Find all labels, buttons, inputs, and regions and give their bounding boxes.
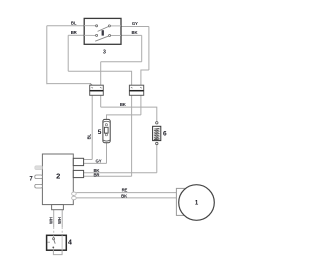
wire resistor6 bottom vertical — [156, 145, 158, 173]
wire BL arrowhead at connector — [90, 83, 92, 85]
svg-text:WH: WH — [57, 217, 62, 224]
switch 3 pole1 lever — [98, 27, 109, 32]
box2 terminal oval RE — [72, 192, 77, 195]
svg-text:RE: RE — [122, 188, 128, 193]
switch 3 pole1 right stub — [111, 25, 121, 27]
wire BR vertical — [67, 35, 69, 71]
resistor 6 body — [153, 126, 161, 140]
switch 3 pole1 left contact — [96, 25, 98, 27]
svg-text:BK: BK — [121, 194, 128, 199]
svg-text:5: 5 — [98, 129, 102, 136]
switch 3 pole1 left stub — [84, 25, 95, 27]
box4 lever — [54, 240, 55, 244]
wire BL horizontal into box2 tab1 upper — [84, 159, 93, 161]
motor bracket — [176, 188, 193, 215]
switch 3 gang link bar — [102, 30, 104, 35]
wire BL horizontal from switch left — [47, 25, 84, 27]
box4 inner right wire — [61, 235, 63, 250]
svg-text:BR: BR — [93, 172, 100, 177]
svg-text:BL: BL — [71, 20, 77, 25]
box4 return U wire — [53, 250, 62, 254]
wire BR horizontal from switch left — [68, 34, 84, 36]
svg-text:GY: GY — [132, 21, 138, 26]
box4 contact — [53, 238, 55, 240]
box2 terminal oval BK — [72, 196, 77, 199]
switch box 4 — [47, 235, 67, 250]
box4 lower stub — [52, 248, 54, 250]
svg-text:4: 4 — [68, 240, 72, 247]
wire BK horizontal from switch right — [121, 34, 142, 36]
wire BK vertical into left connector — [100, 62, 102, 85]
box4 actuator dash — [48, 241, 51, 243]
wire BK vertical down — [141, 35, 143, 61]
switch 3 pole1 right contact — [108, 25, 110, 27]
wire BK below left connector — [100, 95, 102, 107]
wire BL horizontal into left connector — [47, 83, 91, 85]
resistor 6 bottom terminal — [156, 142, 158, 144]
wire WH right from box2 bottom tab — [61, 210, 63, 227]
wire GY jog into right connector — [141, 70, 149, 85]
switch 3 pole2 left stub — [84, 34, 95, 36]
wire fuse5 bottom vertical — [106, 143, 108, 164]
svg-text:3: 3 — [103, 50, 106, 56]
svg-text:6: 6 — [163, 131, 167, 138]
control unit box 2 — [42, 154, 73, 205]
wire GY horizontal into box2 tab1 lower — [84, 162, 107, 164]
box4 inner left wire — [53, 235, 55, 237]
box2 tab2 — [73, 170, 83, 177]
wire WH left from box2 bottom tab — [53, 210, 55, 227]
wire BR horizontal to right connector — [68, 71, 131, 85]
box2 tab1 — [73, 158, 83, 165]
switch 3 pole2 right stub — [111, 35, 121, 37]
fuse 5 body — [103, 119, 110, 142]
box2 left pin3 — [35, 184, 43, 188]
svg-text:BL: BL — [86, 133, 91, 139]
box2 left pin2 — [35, 175, 43, 179]
box4 lower contact — [52, 247, 54, 249]
wire BK horizontal left — [101, 61, 142, 63]
wire BL below left connector down to box2 tab1 — [91, 95, 93, 159]
wire BK horizontal into box2 tab2 upper — [84, 172, 157, 174]
svg-text:BK: BK — [120, 102, 127, 107]
box2 left pin1 — [35, 166, 43, 170]
switch 3 pole2 right contact — [109, 35, 111, 37]
wire GY horizontal from switch right — [121, 26, 149, 28]
svg-text:2: 2 — [56, 172, 60, 181]
switch 3 pole2 lever — [95, 36, 108, 41]
wire GY vertical down — [148, 27, 150, 71]
wire RE to motor — [76, 192, 176, 194]
wire GY horizontal to fuse 5 top — [107, 115, 141, 120]
wire BR horizontal into box2 tab2 — [84, 175, 132, 177]
wire BR vertical below right connector down — [131, 95, 133, 176]
motor 1 — [179, 185, 215, 221]
resistor 6 top terminal — [156, 122, 158, 124]
connector block right — [129, 85, 143, 95]
connector block left — [90, 85, 104, 95]
switch box 3 — [84, 18, 121, 44]
svg-text:GY: GY — [96, 159, 102, 164]
wire GY below right connector — [140, 95, 142, 115]
svg-text:WH: WH — [48, 217, 53, 224]
switch 3 pole2 left contact — [96, 34, 98, 36]
wire BL vertical down left side — [46, 26, 48, 84]
wire BK horizontal to resistor 6 top — [101, 107, 157, 121]
box2 bottom tab — [52, 205, 64, 210]
wire BK to motor — [76, 197, 176, 199]
